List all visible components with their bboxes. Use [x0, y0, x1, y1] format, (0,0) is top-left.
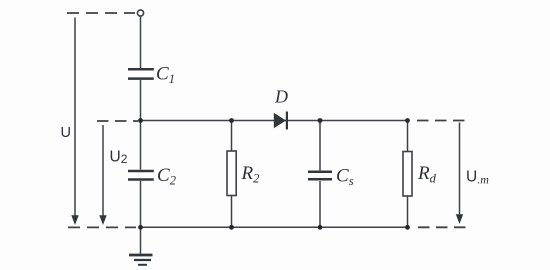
wire U2 line: [102, 125, 104, 216]
wire C2 to bottom node: [140, 181, 142, 227]
svg-text:U.m: U.m: [466, 169, 489, 187]
wire terminal to C1: [140, 16, 142, 68]
node dots: [138, 118, 410, 230]
wire dashed top-right: [417, 120, 466, 122]
svg-text:U: U: [61, 125, 71, 141]
arrowhead U: [71, 215, 78, 225]
arrowhead U2: [99, 215, 106, 225]
wire top bus: [141, 120, 409, 122]
capacitor Cs: [308, 172, 332, 180]
wire Rd bottom: [407, 196, 409, 227]
node R2 bottom: [229, 225, 234, 230]
resistor Rd: [403, 152, 412, 197]
svg-text:R2: R2: [241, 163, 260, 186]
wire Rd top: [407, 121, 409, 152]
wire dashed bottom-left: [68, 226, 136, 228]
arrowhead Um: [456, 214, 463, 224]
capacitor C1: [128, 69, 154, 78]
wire Cs bottom: [319, 181, 321, 227]
wire C1 to top node: [140, 80, 142, 121]
wire top node to C2: [140, 121, 142, 170]
node Rd bottom: [405, 225, 410, 230]
wire dashed into node A: [97, 120, 138, 122]
svg-text:Cs: Cs: [336, 166, 354, 189]
resistor R2: [227, 151, 236, 196]
terminal input: [137, 10, 143, 16]
diode D: [274, 112, 288, 130]
wire left U line: [74, 18, 76, 216]
node Rd top: [405, 118, 410, 123]
wire Cs top: [319, 121, 321, 171]
node Cs bottom: [318, 225, 323, 230]
node bottom-left: [138, 225, 143, 230]
wire dashed top-left: [67, 12, 135, 14]
svg-text:Rd: Rd: [417, 163, 437, 186]
wire dashed bottom-right: [418, 226, 466, 228]
node R2 top: [229, 118, 234, 123]
svg-text:D: D: [274, 87, 288, 107]
svg-text:C1: C1: [156, 64, 175, 87]
wire bottom bus: [141, 226, 409, 228]
wire ground stem: [140, 227, 142, 254]
wire R2 bottom: [231, 196, 233, 228]
svg-text:U2: U2: [110, 149, 128, 167]
node Cs top: [318, 118, 323, 123]
wire R2 top: [231, 121, 233, 152]
svg-text:C2: C2: [157, 165, 176, 188]
node A top-left: [138, 118, 143, 123]
capacitor C2: [128, 171, 154, 180]
ground: [129, 255, 153, 265]
wire Um right line: [459, 123, 461, 215]
